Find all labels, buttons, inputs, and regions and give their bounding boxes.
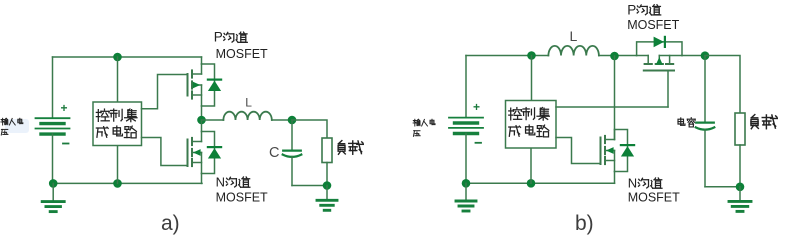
wire output ground link b [705, 186, 740, 188]
label load b [751, 115, 777, 129]
label N-channel cjk a [226, 177, 250, 187]
wire gate drive N a [142, 138, 187, 166]
wire top rail b left [466, 55, 548, 57]
wire bottom rail a [53, 182, 203, 184]
wire inductor to output node a [272, 119, 292, 121]
ground below battery b [456, 183, 476, 211]
wire load bottom b [739, 145, 741, 187]
ground output a [317, 186, 337, 211]
label P-channel cjk b [637, 5, 661, 15]
label control IC a line1 [96, 109, 137, 122]
wire control IC bottom riser b [530, 148, 532, 183]
wire capacitor top lead a [291, 120, 293, 151]
node top rail to control IC a [113, 53, 122, 62]
transistor Q2 N-MOSFET a [188, 132, 215, 174]
transistor Q1 P-MOSFET a [188, 64, 215, 106]
wire output to load b [705, 56, 740, 114]
label load a [338, 141, 363, 155]
wire P-MOSFET to output node b [682, 55, 705, 57]
capacitor C1 a [283, 151, 302, 157]
svg-text:L: L [570, 28, 578, 44]
transistor Q4 N-MOSFET b [601, 130, 628, 172]
wire switch to inductor a [202, 119, 224, 121]
wire N-MOSFET source to rail b [614, 172, 616, 184]
wire top rail a [53, 56, 202, 58]
node battery ground junction a [49, 179, 58, 188]
label N-channel cjk b [638, 178, 662, 188]
wire output ground link a [292, 185, 327, 187]
svg-text:+: + [61, 101, 68, 115]
node switch a [197, 116, 206, 125]
node battery ground junction b [462, 179, 471, 188]
svg-text:P: P [214, 30, 223, 45]
wire control IC top riser a [117, 57, 119, 102]
label - battery a [63, 143, 69, 145]
wire switch node down b [614, 56, 616, 140]
wire control IC top riser b [531, 56, 533, 101]
svg-text:MOSFET: MOSFET [216, 191, 268, 205]
svg-text:MOSFET: MOSFET [627, 18, 679, 32]
capacitor C2 b [696, 123, 715, 130]
wire bottom rail b [466, 182, 615, 184]
inductor L1 a [223, 112, 271, 120]
label input voltage b line2 [413, 131, 420, 137]
wire gate drive N b [556, 138, 600, 164]
label - battery b [476, 142, 482, 144]
wire P-MOSFET source connector a [201, 106, 203, 120]
node output a [288, 116, 297, 125]
svg-text:b): b) [575, 212, 594, 235]
wire N-MOSFET source to rail a [201, 174, 203, 184]
wire N-MOSFET drain connector a [201, 120, 203, 132]
wire gate drive P a [142, 75, 187, 109]
label control IC b line1 [509, 108, 550, 121]
wire battery top lead b [465, 56, 467, 118]
node output ground a [323, 181, 332, 190]
wire load bottom a [326, 163, 328, 186]
wire battery bottom lead a [52, 134, 54, 183]
node output b [701, 51, 710, 60]
resistor RL load a [322, 138, 332, 163]
wire output to load a [292, 120, 327, 138]
svg-text:P: P [627, 2, 636, 17]
svg-text:MOSFET: MOSFET [216, 47, 268, 61]
inductor L2 b [548, 46, 598, 56]
node top rail to control IC b [527, 51, 536, 60]
wire capacitor top lead b [704, 56, 706, 123]
battery V1 input a [36, 118, 70, 134]
wire capacitor bottom lead a [291, 157, 293, 186]
node bottom rail to control IC a [113, 179, 122, 188]
wire P-MOSFET drain connector a [201, 57, 203, 64]
svg-text:MOSFET: MOSFET [628, 191, 680, 205]
svg-text:C: C [269, 145, 279, 161]
label capacitance b [678, 118, 695, 127]
node switch b [610, 52, 619, 61]
resistor RL load b [735, 113, 745, 145]
label input voltage a line1 [1, 118, 23, 125]
wire inductor to switch b [599, 55, 637, 57]
label control IC b line2 [509, 125, 549, 137]
node bottom rail to control IC b [527, 179, 536, 188]
wire control IC bottom riser a [117, 146, 119, 184]
wire gate riser P b [667, 71, 669, 108]
wire battery bottom lead b [465, 134, 467, 184]
wire gate drive P b [556, 106, 668, 108]
wire battery top lead a [52, 57, 54, 118]
svg-text:L: L [245, 96, 252, 110]
ground below battery a [42, 183, 64, 211]
svg-text:N: N [628, 176, 637, 191]
ground output b [729, 187, 751, 212]
label input voltage b line1 [413, 119, 435, 126]
highlight smudge behind label a [5, 119, 29, 133]
label input voltage a line2 [1, 129, 8, 135]
control IC U1 box a [93, 102, 142, 146]
svg-text:+: + [473, 100, 480, 114]
label P-channel cjk a [224, 32, 248, 42]
svg-text:N: N [216, 175, 225, 190]
control IC U2 box b [506, 101, 557, 149]
label control IC a line2 [96, 126, 136, 138]
node output ground b [736, 183, 745, 192]
wire capacitor bottom lead b [704, 129, 706, 186]
svg-text:a): a) [161, 212, 180, 235]
transistor Q3 P-MOSFET b [637, 42, 682, 71]
battery V2 input b [449, 118, 483, 134]
